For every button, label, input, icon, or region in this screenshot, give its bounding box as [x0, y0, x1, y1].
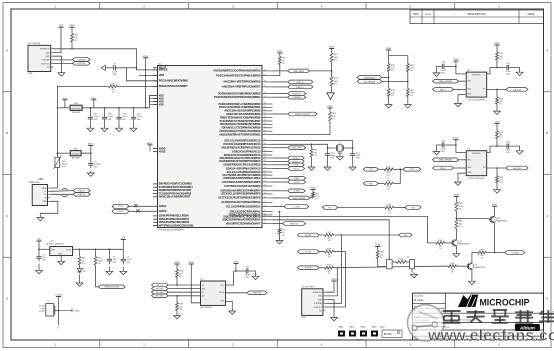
junction	[331, 70, 333, 72]
svg-text:GND: GND	[42, 201, 47, 203]
svg-text:P3V3: P3V3	[174, 262, 180, 264]
junction	[176, 284, 178, 286]
svg-text:SCOP: SCOP	[425, 14, 432, 16]
power flag P5V0 at R46	[454, 195, 460, 200]
svg-text:PGEC3/AN/VREF/OCFA/PMA/CN/RG9: PGEC3/AN/VREF/OCFA/PMA/CN/RG9	[216, 74, 261, 77]
wire VDD to FB1	[57, 107, 70, 109]
svg-text:USBOEN: USBOEN	[293, 97, 302, 99]
fiducial pads PAD1-PAD4	[338, 326, 385, 337]
svg-text:VPP/MCLR: VPP/MCLR	[40, 49, 50, 51]
svg-text:BK-0805: BK-0805	[72, 112, 81, 114]
svg-text:PGC2/AN/VCMP/CN/RB6: PGC2/AN/VCMP/CN/RB6	[159, 80, 189, 83]
net label T1CK	[288, 163, 305, 167]
svg-text:1%: 1%	[391, 95, 394, 97]
svg-text:B_TX0: B_TX0	[293, 206, 300, 208]
svg-text:RTCC: RTCC	[293, 168, 299, 170]
svg-text:GA/B_SENSE2: GA/B_SENSE2	[439, 159, 454, 162]
ground at USB	[37, 217, 44, 221]
resistor R45	[436, 240, 445, 250]
wire Y2 right vertical	[58, 299, 60, 325]
bus junctions	[90, 107, 147, 109]
ground at J3	[331, 315, 338, 321]
connector J3 ICSP test	[302, 287, 326, 320]
wire to U2 pin	[139, 74, 158, 76]
svg-text:59: 59	[264, 74, 266, 76]
wire D4 down	[79, 274, 81, 281]
ground under C5	[87, 171, 94, 177]
transistor Q4	[466, 263, 485, 270]
svg-text:MICROCHIP: MICROCHIP	[480, 297, 530, 307]
power flag P3V3 at R58	[174, 262, 180, 267]
svg-text:58: 58	[264, 81, 266, 83]
watermark chinese characters	[443, 310, 554, 323]
wire SCL to junction	[382, 80, 408, 82]
wire R20 down to pin row	[273, 65, 280, 76]
ground under C3	[120, 270, 127, 275]
wire pin to VBUSON	[273, 93, 288, 95]
ground under R49	[174, 314, 181, 319]
wire B_RX1 to R15	[319, 234, 324, 236]
svg-text:VSS: VSS	[159, 103, 164, 106]
wire C7 to U2	[117, 68, 157, 81]
svg-text:1%: 1%	[74, 40, 77, 42]
wire JP1 to R14	[392, 261, 396, 263]
LED D4	[77, 268, 86, 274]
power flag at R60	[494, 43, 500, 48]
microcontroller U2 PIC32MX body	[158, 63, 263, 231]
svg-text:MCHP: MCHP	[384, 332, 392, 336]
wire to C46	[497, 145, 505, 147]
svg-text:VOUT: VOUT	[66, 250, 72, 252]
resistor R46	[455, 202, 463, 211]
wire to U4	[168, 284, 201, 286]
resistor R57	[94, 257, 103, 266]
capacitor C46	[505, 142, 511, 155]
wire R10 to MCLR net	[71, 42, 73, 49]
svg-text:A/RG0: A/RG0	[159, 210, 167, 213]
wire R43 down	[331, 86, 333, 92]
resistor R13	[478, 250, 487, 260]
svg-text:PAD3: PAD3	[361, 326, 366, 329]
wire to C15	[497, 67, 505, 69]
svg-text:TP30: TP30	[375, 245, 381, 247]
cross mark on T2CK wire	[134, 204, 137, 207]
svg-text:P3V3: P3V3	[233, 262, 239, 264]
wire pin to OSC_SEN	[273, 147, 288, 149]
junction	[145, 75, 147, 77]
ground at C46	[516, 150, 523, 155]
wire R60 down	[496, 60, 498, 68]
svg-text:1%: 1%	[98, 263, 101, 265]
wire R37 out	[394, 207, 405, 209]
svg-text:4: 4	[52, 59, 53, 61]
net label PWRGOOD	[99, 285, 126, 289]
resistor R52	[448, 263, 457, 273]
wire C14 to gnd	[437, 145, 441, 149]
ground under U4	[229, 309, 236, 315]
wire U7 output	[487, 167, 506, 169]
net label B_TX0	[284, 205, 309, 209]
net label B_RX0	[288, 189, 306, 193]
ground under C11	[324, 166, 331, 171]
wire VDD vertical rail	[56, 86, 58, 187]
svg-text:P3V3: P3V3	[277, 51, 283, 53]
wire node to U7 VDD	[487, 146, 497, 152]
power flag TP30	[375, 245, 381, 250]
net label GA/B_SENSE1	[433, 79, 459, 83]
net label GA_RX0	[506, 88, 528, 92]
svg-text:P6C1: P6C1	[409, 169, 415, 171]
svg-text:36: 36	[264, 167, 266, 169]
wire pin to B_RX0	[273, 190, 288, 192]
wire J3 ICSPCLK up	[325, 252, 345, 307]
watermark url text	[427, 328, 554, 345]
svg-text:53: 53	[264, 106, 266, 108]
wire decoupling bus	[82, 107, 149, 109]
wire pin to T1CK	[273, 164, 288, 166]
wire P3V3 to U4 pin4	[191, 267, 200, 303]
wire R44 to U2 pin	[273, 121, 331, 135]
wire R31 down	[407, 97, 409, 104]
power flag 5V0 at U1 in	[36, 239, 41, 244]
net label USB_D-	[288, 80, 313, 84]
capacitor C13	[441, 62, 447, 75]
svg-text:T2CK: T2CK	[118, 206, 124, 208]
connector J1 ICSP RJ-11	[28, 43, 53, 75]
svg-text:MCP1727-3302E/SN: MCP1727-3302E/SN	[46, 243, 64, 245]
net label SOSCI	[288, 156, 305, 160]
svg-text:1%: 1%	[481, 258, 484, 260]
wire to U4	[168, 288, 201, 290]
wire to R49	[176, 296, 178, 303]
ground under Y1	[337, 152, 344, 160]
net label TX1	[322, 206, 337, 210]
svg-text:PAD4: PAD4	[372, 326, 377, 329]
capacitor C7	[112, 63, 118, 76]
junction	[311, 144, 313, 146]
svg-text:DESCRIPTION: DESCRIPTION	[468, 12, 486, 16]
wire VDD to U7	[456, 143, 466, 153]
svg-text:MMBT3904: MMBT3904	[497, 220, 508, 222]
wire T2CK to U2	[129, 205, 153, 207]
svg-text:1%: 1%	[179, 309, 182, 311]
power flag P3V3 at U4	[189, 262, 195, 267]
junction	[90, 152, 92, 154]
title block frame	[413, 293, 544, 340]
net label SP_SDI	[152, 290, 169, 294]
svg-text:AC1RX/SS2/U2CTS/PMA/CN/RG9: AC1RX/SS2/U2CTS/PMA/CN/RG9	[221, 201, 261, 204]
ground under R24	[276, 240, 283, 244]
wire T3CK to U2	[129, 210, 153, 212]
svg-text:VBUS: VBUS	[41, 188, 47, 190]
svg-text:BK-0805: BK-0805	[72, 157, 81, 159]
junction	[235, 270, 237, 272]
svg-text:47: 47	[264, 126, 266, 128]
svg-text:1%: 1%	[459, 208, 462, 210]
wire R16 to junction	[334, 251, 346, 253]
svg-text:AN3/C1IN-/OC/CN5/PMA/RB3: AN3/C1IN-/OC/CN5/PMA/RB3	[226, 113, 261, 116]
U2 right-side pin rows	[213, 70, 272, 226]
svg-text:AN12/ERXD0/ACRS/PMA11/RB12: AN12/ERXD0/ACRS/PMA11/RB12	[221, 147, 261, 150]
svg-text:PIC32MX320F128H-80I/PT: PIC32MX320F128H-80I/PT	[160, 229, 185, 231]
resistor R48	[455, 220, 463, 229]
svg-text:50: 50	[264, 116, 266, 118]
wire R28 to R31	[407, 72, 409, 89]
power flag P3V3 at cap bank	[91, 98, 97, 103]
op-amp U7 MCP6V06 body	[466, 149, 487, 180]
power flag P3V3 at R10	[69, 25, 75, 30]
wire J1 ICSPDAT	[53, 59, 73, 61]
svg-text:REV: REV	[413, 12, 419, 16]
resistor R31	[406, 89, 414, 97]
wire to R41	[311, 144, 313, 148]
wire AVDD flag to U2 pins	[149, 147, 151, 150]
wire to R50	[79, 249, 81, 256]
svg-text:P5V0: P5V0	[494, 122, 500, 124]
ground under C2	[106, 270, 113, 275]
resistor R20	[278, 57, 286, 65]
svg-text:5: 5	[52, 62, 53, 64]
wire J3 ICSPDAT up to R15	[325, 235, 341, 303]
svg-text:56: 56	[264, 92, 266, 94]
wire J1 VPP/MCLR to U2	[53, 49, 158, 70]
svg-text:MINI-B USB: MINI-B USB	[29, 182, 40, 184]
svg-text:J1 ICSP-RJ11: J1 ICSP-RJ11	[28, 43, 41, 45]
capacitor C5	[88, 161, 101, 169]
net label SER_RX at U4	[247, 291, 267, 295]
junction	[407, 81, 409, 83]
svg-text:M. Taylor: M. Taylor	[414, 299, 424, 302]
resistor R43	[330, 77, 338, 86]
svg-text:1%: 1%	[499, 137, 502, 139]
svg-text:35: 35	[264, 171, 266, 173]
wire C46 to gnd	[511, 146, 520, 150]
wire USB D- to label	[50, 190, 73, 193]
svg-text:1%: 1%	[459, 226, 462, 228]
wire flag down	[388, 53, 390, 64]
wire U1 VOUT node	[73, 248, 124, 250]
svg-text:USB_VBUS: USB_VBUS	[293, 71, 304, 73]
svg-text:A/RG1: A/RG1	[159, 205, 167, 208]
wire U2 to Q2 base	[273, 217, 437, 243]
svg-text:1%: 1%	[328, 273, 331, 275]
svg-text:21: 21	[264, 222, 266, 224]
transistor Q3	[489, 216, 508, 223]
power flag P5V0 at Q3	[492, 204, 498, 209]
svg-text:PGEDB/AN/OC/USBID/PMA/CN/RB5: PGEDB/AN/OC/USBID/PMA/CN/RB5	[218, 92, 261, 95]
wire flag to R20	[279, 55, 281, 58]
power flag AVDD	[88, 143, 94, 149]
svg-text:MCP6V06: MCP6V06	[472, 74, 480, 76]
wire cap to ground	[118, 123, 120, 127]
resistor R41	[310, 149, 318, 158]
resistor R60	[496, 52, 504, 60]
svg-text:P5B_2: P5B_2	[440, 168, 447, 170]
resistor R05	[384, 166, 393, 176]
wire R45 to Q2 base	[445, 242, 451, 244]
wire USB GND	[40, 201, 58, 216]
capacitor C12	[350, 152, 361, 160]
junction	[136, 67, 138, 69]
wire R15 to RX0 label	[334, 234, 399, 236]
wire C2 down	[108, 267, 110, 270]
svg-text:AVSS: AVSS	[159, 150, 166, 153]
ground at J1	[58, 70, 65, 76]
power flag at U6	[453, 59, 459, 64]
svg-text:VREGS: VREGS	[159, 69, 168, 72]
svg-text:1%: 1%	[112, 92, 115, 94]
junction	[352, 147, 354, 149]
svg-text:1%: 1%	[391, 70, 394, 72]
wire C40 to gnd	[250, 271, 256, 275]
wire pin to U1TX	[273, 181, 288, 183]
resistor R17	[325, 265, 334, 275]
capacitor C11	[325, 152, 336, 160]
net label VBUSON	[288, 92, 306, 96]
ground under C31	[87, 127, 94, 132]
net label SP_SCK	[152, 287, 169, 291]
svg-text:VIN-: VIN-	[467, 159, 471, 161]
wire VDD rail to FB2	[57, 152, 70, 154]
net label RX0	[363, 182, 378, 186]
wire VDD to U6	[456, 64, 466, 74]
wire R29 down	[388, 97, 390, 104]
junction	[496, 67, 498, 69]
net label SCL	[357, 80, 382, 84]
wire to C11	[327, 148, 329, 152]
wire GA/B_SENSE2 to U7	[459, 159, 467, 161]
junction	[38, 249, 40, 251]
wire FB2 to AVDD flag	[81, 148, 91, 153]
transistor Q2	[451, 240, 470, 247]
net label B_RTS	[297, 266, 319, 270]
svg-text:32: 32	[264, 181, 266, 183]
svg-text:SQICS1/RP/PMA/AERXERR/RA1: SQICS1/RP/PMA/AERXERR/RA1	[222, 219, 261, 222]
wire U4 VCC up	[226, 271, 234, 285]
svg-text:52: 52	[264, 109, 266, 111]
svg-text:P3V3: P3V3	[143, 56, 149, 58]
svg-text:43: 43	[264, 143, 266, 145]
svg-text:USB_D-: USB_D-	[297, 82, 305, 84]
junction	[455, 144, 457, 146]
svg-text:VIN-: VIN-	[467, 81, 471, 83]
power flag P3V3 I2C pullups	[386, 48, 392, 53]
capacitor C15	[505, 63, 511, 76]
resistor R58	[176, 270, 184, 278]
ferrite bead FB1	[70, 103, 82, 114]
resistor R49	[176, 303, 184, 311]
svg-text:TO_MiWi: TO_MiWi	[511, 252, 520, 254]
power flag 3V3 at J1	[58, 25, 63, 30]
wire pin to SOSCI	[273, 157, 288, 159]
svg-text:34: 34	[264, 174, 266, 176]
wire R06 out	[393, 183, 400, 185]
wire TX1 to R37	[338, 207, 385, 209]
resistor R50	[78, 257, 86, 266]
wire to R63	[496, 168, 498, 176]
wire flag to R44	[329, 111, 331, 112]
svg-text:MMBT3904: MMBT3904	[459, 244, 470, 246]
power flag at R61	[494, 122, 500, 127]
wire P3V3 to R10	[71, 30, 73, 34]
svg-text:GA/B_SENSE1: GA/B_SENSE1	[439, 80, 454, 83]
svg-text:26: 26	[264, 205, 266, 207]
net label SER_RX	[283, 222, 306, 226]
wire flag to R21	[331, 51, 333, 53]
wire to R62	[496, 89, 498, 97]
wire VDD rail to R47	[57, 85, 108, 87]
wire flag to R58	[176, 267, 178, 270]
junction	[58, 310, 60, 312]
svg-text:25: 25	[264, 210, 266, 212]
wire to C5	[90, 153, 92, 160]
crystal Y2 32kHz block	[39, 301, 55, 316]
wire flag to Q3 collector	[493, 209, 495, 216]
svg-text:B: B	[546, 131, 548, 135]
power flag AVDD at U2	[147, 142, 153, 148]
svg-text:AN/C2IN/A-VREF/RP5/CN8/RG6: AN/C2IN/A-VREF/RP5/CN8/RG6	[223, 81, 261, 84]
ground under U7	[455, 180, 462, 186]
wire node to U6 VDD	[487, 68, 497, 74]
net label RX0 right	[399, 233, 413, 237]
svg-text:ICSPDAT: ICSPDAT	[314, 302, 323, 305]
svg-text:P3V3: P3V3	[310, 188, 316, 190]
svg-text:OSC1/CLKI/AN/RP/CN30/RC12: OSC1/CLKI/AN/RP/CN30/RC12	[224, 139, 261, 142]
svg-text:48: 48	[264, 123, 266, 125]
svg-text:AN/C2IN/A-VREF/RP10/CN9/RG7: AN/C2IN/A-VREF/RP10/CN9/RG7	[222, 86, 261, 89]
wire pin to R21 rail	[273, 70, 332, 72]
wire Q3 emitter down	[493, 223, 495, 253]
wire 5V0 stub	[64, 103, 66, 108]
svg-text:P3V3: P3V3	[453, 59, 459, 61]
wire pullup tops	[389, 56, 408, 64]
svg-text:P3V3: P3V3	[91, 98, 97, 100]
svg-text:30: 30	[264, 189, 266, 191]
jumper JP1 pin A	[387, 257, 393, 269]
net label U1TX	[288, 180, 306, 184]
resistor R14	[396, 259, 406, 263]
svg-text:B_RX0: B_RX0	[293, 191, 300, 193]
wire U6 gnd	[458, 95, 466, 101]
svg-text:HOLD: HOLD	[219, 292, 225, 294]
Altium badge	[515, 324, 540, 331]
resistor R62	[496, 97, 504, 105]
wire J3 VPP	[325, 284, 334, 292]
svg-text:U1TX/SDO1A/RP/CN/PMA13/RF3: U1TX/SDO1A/RP/CN/PMA13/RF3	[222, 181, 261, 184]
svg-text:P5V0: P5V0	[454, 195, 460, 197]
wire pin to USB_D+	[273, 86, 288, 88]
wire J3 GND down	[325, 300, 334, 315]
net label SDA	[357, 76, 382, 80]
svg-text:PAD2: PAD2	[350, 326, 355, 329]
ground at JP1	[411, 273, 418, 278]
net label TX0	[363, 168, 378, 172]
wire P5B_2 to U7	[454, 167, 467, 169]
capacitor C3	[121, 256, 133, 265]
svg-text:1%: 1%	[410, 70, 413, 72]
wire U4 HOLD out	[226, 292, 247, 294]
wire to C2	[108, 249, 110, 256]
wire R52 to Q4 base	[457, 265, 467, 267]
power arrow down at R43	[327, 92, 334, 99]
wire down to Q4 collector	[471, 253, 473, 264]
svg-text:23: 23	[264, 215, 266, 217]
svg-text:VIN+: VIN+	[467, 167, 471, 169]
wire B_TX1 to R16	[319, 251, 324, 253]
svg-text:P5V0: P5V0	[329, 47, 335, 49]
svg-text:B_RX1: B_RX1	[305, 235, 312, 237]
svg-text:GA_RX0: GA_RX0	[513, 88, 522, 91]
